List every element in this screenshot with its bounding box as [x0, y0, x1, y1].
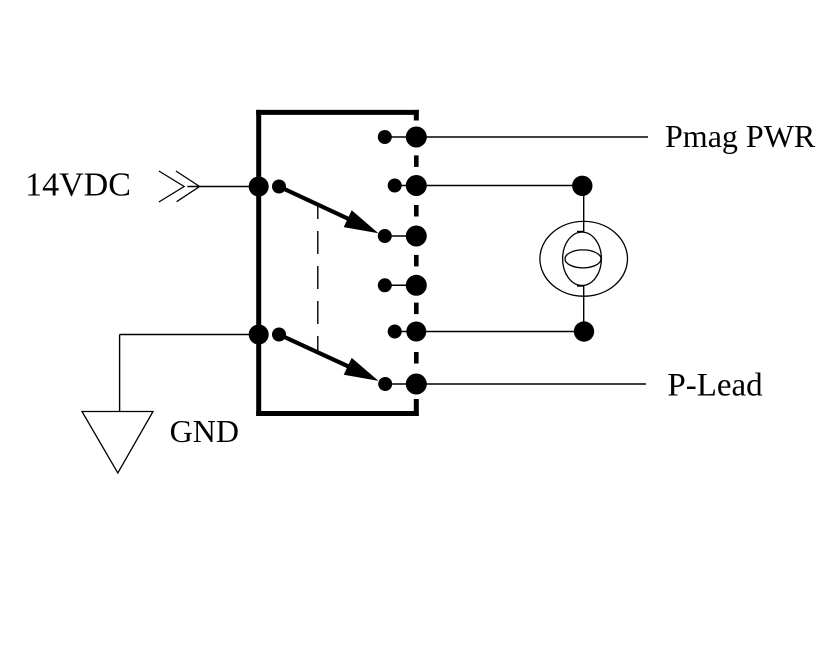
svg-text:GND: GND — [170, 413, 239, 449]
svg-text:P-Lead: P-Lead — [667, 368, 763, 404]
svg-text:14VDC: 14VDC — [25, 167, 131, 204]
svg-text:Pmag PWR: Pmag PWR — [665, 118, 816, 154]
